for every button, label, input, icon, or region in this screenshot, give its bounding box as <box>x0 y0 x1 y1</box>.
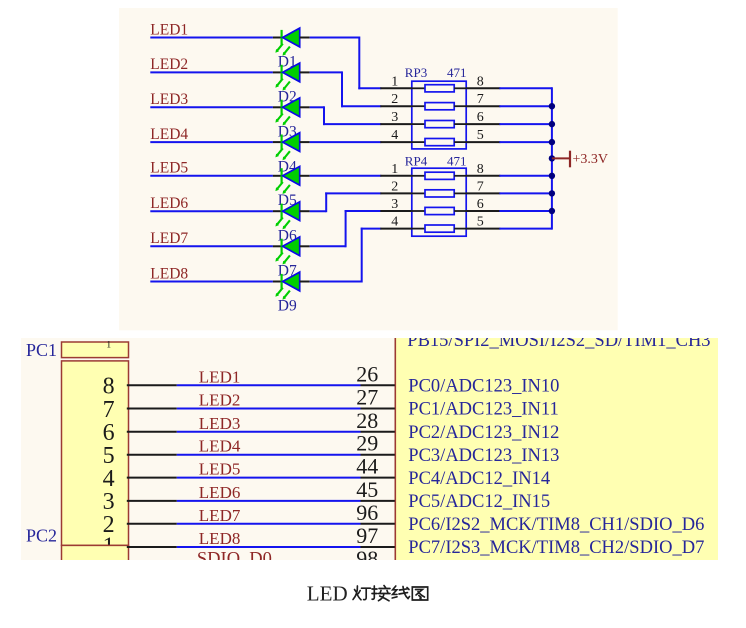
wire net LED2 <box>177 408 361 410</box>
wire LED6 left segment <box>150 210 273 212</box>
svg-text:D9: D9 <box>278 298 297 315</box>
svg-text:PC4/ADC12_IN14: PC4/ADC12_IN14 <box>408 469 550 489</box>
svg-text:+3.3V: +3.3V <box>573 152 609 167</box>
wire LED2 vertical segment <box>341 71 343 107</box>
svg-text:LED7: LED7 <box>199 506 241 525</box>
svg-text:5: 5 <box>477 128 484 143</box>
LED D4 <box>275 133 299 161</box>
wire LED6 vertical segment <box>325 192 327 212</box>
svg-text:LED5: LED5 <box>150 160 188 177</box>
wire LED1 vertical segment <box>358 37 360 90</box>
svg-text:PC7/I2S3_MCK/TIM8_CH2/SDIO_D7: PC7/I2S3_MCK/TIM8_CH2/SDIO_D7 <box>408 538 704 558</box>
svg-text:SDIO_D0: SDIO_D0 <box>197 550 272 570</box>
RP4 pin 5 stub <box>466 228 500 230</box>
RP4 resistor element 4 <box>412 225 466 232</box>
RP3 pin 8 stub <box>466 87 500 89</box>
diode D4 left pin <box>273 141 283 143</box>
wire RP3 pin 8 to bus <box>499 87 552 89</box>
svg-text:LED2: LED2 <box>150 56 188 73</box>
caption glyph xian <box>392 586 409 599</box>
wire LED8 into resistor pack pin <box>361 228 382 230</box>
LED D5 <box>275 166 299 194</box>
svg-text:RP3: RP3 <box>405 65 427 80</box>
junction <box>549 208 555 214</box>
RP3 resistor element 4 <box>412 139 466 146</box>
svg-text:LED1: LED1 <box>150 21 188 38</box>
junction <box>549 103 555 109</box>
svg-text:LED4: LED4 <box>150 126 188 143</box>
wire net LED3 <box>177 431 361 433</box>
RP3 pin 3 stub <box>380 123 412 125</box>
MCU U1 box (cropped) <box>395 330 746 570</box>
svg-text:26: 26 <box>356 361 378 386</box>
wire RP3 pin 5 to bus <box>499 141 552 143</box>
LED D3 <box>275 98 299 126</box>
wire LED5 left segment <box>150 175 273 177</box>
LED D1 <box>275 28 299 56</box>
diode D6 right pin <box>300 210 310 212</box>
svg-text:7: 7 <box>477 179 484 194</box>
wire MCU pin 96 stub <box>361 523 395 525</box>
wire +3.3V bus vertical <box>551 87 553 229</box>
diode D3 left pin <box>273 106 283 108</box>
LED D7 <box>275 237 299 265</box>
wire LED1 left segment <box>150 37 273 39</box>
RP3 pin 4 stub <box>380 141 412 143</box>
svg-text:PC5/ADC12_IN15: PC5/ADC12_IN15 <box>408 492 550 512</box>
RP3 resistor element 2 <box>412 103 466 110</box>
power +3.3V symbol <box>552 151 570 168</box>
wire pin 7 stub <box>127 408 177 410</box>
wire MCU pin 26 stub <box>361 384 395 386</box>
wire net LED4 <box>177 454 361 456</box>
wire pin 8 stub <box>127 384 177 386</box>
wire LED7 left segment <box>150 245 273 247</box>
wire LED7 vertical segment <box>345 210 347 247</box>
svg-text:PB15/SPI2_MOSI/I2S2_SD/TIM1_CH: PB15/SPI2_MOSI/I2S2_SD/TIM1_CH3 <box>407 331 710 351</box>
svg-text:LED7: LED7 <box>150 230 188 247</box>
wire MCU pin 45 stub <box>361 500 395 502</box>
diode D1 left pin <box>273 37 283 39</box>
junction <box>549 190 555 196</box>
svg-text:28: 28 <box>356 408 378 433</box>
diode D7 left pin <box>273 245 283 247</box>
RP3 pin 1 stub <box>380 87 412 89</box>
wire net LED7 <box>177 523 361 525</box>
svg-text:LED6: LED6 <box>199 483 241 502</box>
wire pin 4 stub <box>127 477 177 479</box>
svg-text:LED6: LED6 <box>150 195 188 212</box>
RP3 pin 7 stub <box>466 105 500 107</box>
wire pin 2 stub <box>127 523 177 525</box>
svg-text:4: 4 <box>391 215 398 230</box>
svg-text:PC2: PC2 <box>26 526 57 546</box>
diode D5 right pin <box>300 175 310 177</box>
RP4 pin 1 stub <box>380 175 412 177</box>
svg-text:7: 7 <box>103 397 115 423</box>
RP4 resistor element 3 <box>412 207 466 214</box>
wire pin 5 stub <box>127 454 177 456</box>
svg-text:98: 98 <box>356 546 378 571</box>
RP4 pin 2 stub <box>380 192 412 194</box>
svg-text:LED8: LED8 <box>199 529 241 548</box>
junction <box>549 121 555 127</box>
svg-text:3: 3 <box>391 110 398 125</box>
wire LED3 vertical segment <box>323 106 325 125</box>
diode D9 left pin <box>273 281 283 283</box>
wire LED3 left segment <box>150 106 273 108</box>
RP4 pin 4 stub <box>380 228 412 230</box>
junction <box>549 139 555 145</box>
wire RP4 pin 6 to bus <box>499 210 552 212</box>
svg-text:PC2/ADC123_IN12: PC2/ADC123_IN12 <box>408 423 559 443</box>
wire LED2 left segment <box>150 71 273 73</box>
wire MCU pin 44 stub <box>361 477 395 479</box>
diode D4 right pin <box>300 141 310 143</box>
svg-text:2: 2 <box>103 512 115 538</box>
wire LED6 horizontal to corner <box>310 210 327 212</box>
wire net LED8 <box>177 546 361 548</box>
wire LED8 vertical segment <box>361 228 363 283</box>
junction <box>549 155 555 161</box>
wire LED1 horizontal to corner <box>310 37 360 39</box>
wire pin 1 stub <box>127 546 177 548</box>
svg-text:PC3/ADC123_IN13: PC3/ADC123_IN13 <box>408 446 559 466</box>
svg-text:LED2: LED2 <box>199 391 241 410</box>
svg-text:LED3: LED3 <box>150 91 188 108</box>
wire LED4 left segment <box>150 141 273 143</box>
svg-text:5: 5 <box>477 215 484 230</box>
diode D3 right pin <box>300 106 310 108</box>
diode D7 right pin <box>300 245 310 247</box>
wire LED1 into resistor pack pin <box>358 87 381 89</box>
diode D9 right pin <box>300 281 310 283</box>
svg-text:LED4: LED4 <box>199 437 241 456</box>
wire LED6 into resistor pack pin <box>325 192 381 194</box>
svg-text:LED5: LED5 <box>199 460 241 479</box>
wire pin 3 stub <box>127 500 177 502</box>
LED D6 <box>275 202 299 230</box>
svg-text:96: 96 <box>356 500 378 525</box>
svg-text:PC0/ADC123_IN10: PC0/ADC123_IN10 <box>408 377 559 397</box>
RP4 pin 3 stub <box>380 210 412 212</box>
wire LED7 into resistor pack pin <box>345 210 382 212</box>
LED D2 <box>275 63 299 91</box>
RP4 pin 8 stub <box>466 175 500 177</box>
resistor pack RP4 body <box>412 168 466 236</box>
wire LED7 horizontal to corner <box>310 245 346 247</box>
svg-text:1: 1 <box>106 340 111 350</box>
wire LED2 into resistor pack pin <box>341 105 381 107</box>
svg-text:RP4: RP4 <box>405 153 428 168</box>
RP3 resistor element 3 <box>412 121 466 128</box>
svg-text:8: 8 <box>103 374 115 400</box>
caption glyph tu <box>412 587 427 600</box>
wire LED3 horizontal to corner <box>310 106 324 108</box>
svg-text:PC6/I2S2_MCK/TIM8_CH1/SDIO_D6: PC6/I2S2_MCK/TIM8_CH1/SDIO_D6 <box>408 515 704 535</box>
LED D9 <box>275 272 299 300</box>
connector PC1 box <box>62 342 129 358</box>
RP4 pin 6 stub <box>466 210 500 212</box>
svg-text:8: 8 <box>477 74 484 89</box>
svg-text:PC1: PC1 <box>26 340 57 360</box>
svg-text:44: 44 <box>356 454 378 479</box>
diode D2 right pin <box>300 71 310 73</box>
wire LED4 to resistor pack <box>310 141 382 143</box>
wire RP3 pin 7 to bus <box>499 105 552 107</box>
svg-text:1: 1 <box>391 162 398 177</box>
svg-text:3: 3 <box>391 197 398 212</box>
RP3 pin 5 stub <box>466 141 500 143</box>
RP3 pin 2 stub <box>380 105 412 107</box>
wire net LED6 <box>177 500 361 502</box>
diode D6 left pin <box>273 210 283 212</box>
diode D5 left pin <box>273 175 283 177</box>
diode D1 right pin <box>300 37 310 39</box>
wire RP3 pin 6 to bus <box>499 123 552 125</box>
svg-text:27: 27 <box>356 385 378 410</box>
svg-text:2: 2 <box>391 179 398 194</box>
wire RP4 pin 8 to bus <box>499 175 552 177</box>
svg-text:4: 4 <box>103 466 115 492</box>
wire LED3 into resistor pack pin <box>323 123 381 125</box>
RP4 resistor element 1 <box>412 172 466 179</box>
wire MCU pin 29 stub <box>361 454 395 456</box>
connector PC3 box (cropped) <box>62 545 129 567</box>
bottom schematic background <box>21 338 718 560</box>
RP4 pin 7 stub <box>466 192 500 194</box>
wire LED2 horizontal to corner <box>310 71 342 73</box>
svg-text:8: 8 <box>477 162 484 177</box>
caption glyph jie <box>372 586 390 601</box>
junction <box>549 173 555 179</box>
svg-text:29: 29 <box>356 431 378 456</box>
wire MCU pin 28 stub <box>361 431 395 433</box>
svg-text:4: 4 <box>391 128 398 143</box>
top schematic background <box>119 8 618 330</box>
svg-text:LED3: LED3 <box>199 414 241 433</box>
wire RP4 pin 7 to bus <box>499 192 552 194</box>
diode D2 left pin <box>273 71 283 73</box>
wire MCU pin 97 stub <box>361 546 395 548</box>
svg-text:97: 97 <box>356 523 378 548</box>
svg-text:7: 7 <box>477 92 484 107</box>
wire LED8 left segment <box>150 281 273 283</box>
svg-text:2: 2 <box>391 92 398 107</box>
wire MCU pin 27 stub <box>361 408 395 410</box>
svg-text:LED: LED <box>307 581 348 605</box>
wire RP4 pin 5 to bus <box>499 228 552 230</box>
svg-text:45: 45 <box>356 477 378 502</box>
svg-text:PC1/ADC123_IN11: PC1/ADC123_IN11 <box>408 400 558 420</box>
wire net LED5 <box>177 477 361 479</box>
svg-text:1: 1 <box>391 74 398 89</box>
RP3 resistor element 1 <box>412 85 466 92</box>
RP3 pin 6 stub <box>466 123 500 125</box>
svg-text:LED8: LED8 <box>150 265 188 282</box>
wire net LED1 <box>177 384 361 386</box>
svg-text:6: 6 <box>477 197 484 212</box>
svg-text:471: 471 <box>447 153 467 168</box>
wire pin 6 stub <box>127 431 177 433</box>
connector PC2 box <box>62 361 129 546</box>
wire LED5 to resistor pack <box>310 175 382 177</box>
wire LED8 horizontal to corner <box>310 281 362 283</box>
resistor pack RP3 body <box>412 81 466 149</box>
svg-text:LED1: LED1 <box>199 367 241 386</box>
svg-text:471: 471 <box>447 65 467 80</box>
caption glyph deng <box>353 586 371 600</box>
RP4 resistor element 2 <box>412 190 466 197</box>
svg-text:6: 6 <box>477 110 484 125</box>
